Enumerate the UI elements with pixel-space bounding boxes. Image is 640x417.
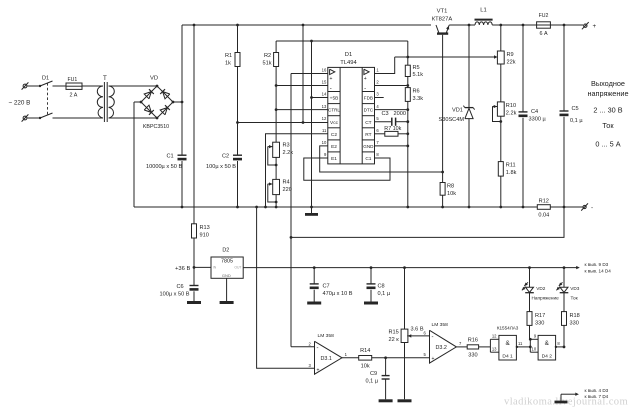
pin number 6 (D3.2) [423, 330, 426, 335]
svg-text:+: + [364, 76, 367, 82]
label 0...5A [595, 140, 620, 149]
label 3.6V [411, 327, 424, 333]
node R15 tap [403, 266, 406, 269]
pin number 8 [557, 341, 560, 346]
label VD3 [570, 286, 580, 291]
label C3 value [394, 111, 406, 117]
wire FU2 to + terminal [550, 24, 583, 27]
label R15 [389, 330, 399, 336]
label & (D4.2) [545, 340, 550, 347]
wire input top to switch [27, 85, 40, 87]
svg-text:12: 12 [492, 334, 497, 339]
svg-text:0.04: 0.04 [538, 213, 549, 219]
switch D1 link (dashed) [47, 83, 49, 115]
wire voltage feedback [291, 207, 564, 237]
label D1 (switch) [42, 76, 49, 82]
wire R10 to R11 [500, 116, 502, 161]
wire rail to R9 [500, 25, 502, 51]
label R18 [570, 313, 580, 319]
wire pin5 CT to C3 [375, 121, 392, 123]
fuse FU1 [66, 83, 82, 89]
svg-text:IN: IN [213, 266, 217, 270]
label C6 value [160, 292, 190, 298]
node R1 rail tap [236, 24, 239, 27]
transformer T primary winding [97, 86, 103, 118]
wire rail to VD2 [529, 268, 531, 288]
svg-text:100µ x 50 В: 100µ x 50 В [206, 164, 236, 170]
svg-text:R18: R18 [570, 313, 580, 319]
pin number 5 (D3.2) [423, 352, 426, 357]
diode bridge VD bottom-left [144, 105, 154, 115]
wire rail to VD3 [563, 268, 565, 288]
label D3.2 - [432, 335, 434, 341]
wire pin15 to divider [276, 85, 328, 87]
svg-text:к выв. 7 D4: к выв. 7 D4 [585, 394, 609, 399]
pin number 14 [322, 92, 327, 97]
resistor R17 [527, 312, 532, 326]
svg-text:2.2k: 2.2k [506, 111, 517, 117]
label k9D3 [585, 262, 609, 267]
wire R5 to R6 [406, 77, 409, 88]
svg-text:к выв. 9 D3: к выв. 9 D3 [585, 262, 609, 267]
wire R8 to ground bus [441, 195, 444, 208]
svg-text:910: 910 [200, 233, 209, 239]
label C9 [370, 371, 377, 377]
wire pin2 to R5/R6 node [375, 85, 408, 87]
node Vcc rail tap [302, 24, 305, 27]
resistor R6 [405, 88, 410, 102]
label D2 [222, 248, 229, 254]
potentiometer R3 [273, 142, 280, 157]
label + [593, 23, 597, 30]
label R16 [468, 337, 478, 343]
wire +36V to regulator [194, 266, 211, 268]
label FU1 [68, 77, 78, 83]
wire gate input split [489, 339, 491, 352]
potentiometer R15 [401, 329, 408, 342]
label 6 A [539, 31, 547, 37]
wire pin11 C2 drop [264, 134, 328, 209]
wire R18 to D4.2 out [563, 325, 565, 347]
label D1 (IC) [345, 52, 352, 58]
svg-text:FDB: FDB [364, 96, 373, 101]
switch D1 pole top [39, 81, 53, 87]
wire current sense to D3.1 + [255, 206, 314, 369]
label R14 [360, 348, 370, 354]
node VD1 rail tap [468, 24, 471, 27]
label 2 A [70, 93, 78, 99]
svg-text:10000µ x 50 В: 10000µ x 50 В [146, 164, 182, 170]
ground C9 [379, 399, 393, 402]
wire R4 to ground bus [275, 195, 278, 209]
svg-text:Vcc: Vcc [330, 120, 339, 126]
node VD3 rail tap [563, 266, 566, 269]
svg-text:-: - [364, 86, 366, 92]
svg-text:E2: E2 [331, 144, 337, 150]
svg-text:D1: D1 [345, 52, 352, 58]
label R17 [535, 313, 545, 319]
diode bridge VD top-right [160, 89, 170, 99]
label k14D4 [585, 268, 612, 273]
wire VD3 to R18 [563, 293, 565, 312]
svg-text:CTRL: CTRL [328, 108, 340, 113]
svg-text:6 А: 6 А [539, 31, 547, 37]
wire D4.1 out [516, 346, 532, 349]
label D3.1 - [317, 345, 319, 351]
wire top bus left corner down (raw + rail) [181, 25, 183, 155]
svg-text:10k: 10k [361, 364, 370, 370]
svg-text:2 ... 30 В: 2 ... 30 В [593, 105, 622, 114]
node input terminal bottom (~220V line) [22, 114, 29, 121]
label VD [150, 76, 158, 82]
label R4 value [283, 187, 292, 193]
label R3 [283, 143, 290, 149]
wire ground bus [134, 206, 537, 208]
pin number 10 [532, 347, 537, 352]
wire fuse to transformer primary [82, 85, 103, 87]
wire D3.2 out to R16 [456, 346, 467, 348]
svg-text:R15: R15 [389, 330, 399, 336]
wire R9 to R10 [500, 64, 502, 102]
wire emitter node down to VD1 [468, 25, 470, 108]
wire gate D4.2 input 9 [530, 338, 538, 340]
label left comparator - [330, 86, 332, 92]
svg-text:10: 10 [532, 347, 537, 352]
wire rail to R15 [404, 268, 406, 330]
transistor VT1 collector [436, 25, 439, 33]
label R10 value [506, 111, 517, 117]
svg-text:16: 16 [322, 68, 327, 73]
label R5 [413, 65, 420, 71]
pin label GND (right column) [363, 144, 374, 149]
capacitor C2 [233, 155, 242, 160]
svg-text:330: 330 [468, 353, 477, 359]
svg-text:13: 13 [492, 347, 497, 352]
node bridge AC top junction [156, 85, 159, 88]
svg-text:R11: R11 [506, 163, 516, 169]
label R1 value [225, 61, 231, 67]
svg-text:13: 13 [322, 104, 327, 109]
wire R2 top stub [275, 41, 277, 53]
label D3.1 + [317, 367, 320, 373]
wiper R3 arrow [268, 145, 273, 148]
svg-text:2.2k: 2.2k [283, 150, 294, 156]
svg-text:10: 10 [322, 140, 327, 145]
wire pin13 CTRL to divider [276, 109, 328, 111]
svg-text:3.3k: 3.3k [413, 96, 424, 102]
label VT1 [437, 9, 448, 15]
svg-text:GND: GND [363, 144, 374, 149]
fuse FU2 [537, 22, 551, 28]
label k4D3 [585, 388, 609, 393]
pin number 7 (D3.2) [459, 341, 462, 346]
wire R14 to D3.2 + [372, 356, 430, 359]
wire pin6 RT to R7 [375, 133, 385, 135]
resistor R1 [235, 53, 240, 67]
pin number 13 [492, 347, 497, 352]
pin label E1 (left column) [331, 156, 337, 162]
pin label +5В (left column) [330, 96, 339, 102]
svg-text:C5: C5 [572, 106, 579, 112]
transformer T core [104, 82, 107, 122]
pin label DTC (right column) [364, 108, 374, 113]
voltage regulator D2 7805 body [211, 257, 243, 278]
op-amp U1 TL494 body (D1) [328, 67, 375, 163]
diode bridge VD bottom-right [160, 105, 170, 115]
svg-text:-: - [317, 345, 319, 351]
svg-text:C2: C2 [222, 153, 229, 159]
resistor R7 [385, 131, 398, 136]
label R8 value [447, 191, 456, 197]
label C5 [572, 106, 579, 112]
pin number 6 [376, 128, 379, 133]
wire L1 to FU2 [492, 24, 536, 26]
label R2 value [263, 61, 272, 67]
svg-text:FU1: FU1 [68, 77, 78, 83]
label Ток (output) [602, 121, 614, 130]
svg-text:220: 220 [283, 187, 292, 193]
svg-text:R13: R13 [200, 225, 210, 231]
potentiometer R4 [273, 179, 280, 194]
pin label RT (right column) [365, 132, 371, 138]
switch D1 pole bottom [39, 113, 53, 119]
pin number 1 [376, 68, 379, 73]
resistor R11 [498, 162, 503, 177]
pin number 10 [322, 140, 327, 145]
svg-text:+: + [593, 23, 597, 30]
svg-text:0,1 µ: 0,1 µ [570, 118, 583, 124]
label left comparator + [330, 76, 333, 82]
wire ref line y41 [276, 41, 408, 57]
svg-text:DTC: DTC [364, 108, 374, 113]
node R13 rail tap [193, 24, 196, 27]
svg-text:2 A: 2 A [70, 93, 78, 99]
label T [103, 75, 107, 82]
pin number 5 [376, 116, 379, 121]
svg-text:КТ827А: КТ827А [432, 17, 453, 23]
wire C9 gnd stem [385, 379, 387, 399]
label R13 value [200, 233, 209, 239]
wire pin14 drop ground stem [311, 207, 313, 213]
wire 7805 gnd stem [226, 278, 228, 301]
label Ток [571, 296, 579, 301]
wire R7 to drop [398, 133, 408, 135]
wire gnd ref stem [560, 394, 562, 400]
svg-text:C1: C1 [365, 156, 371, 162]
svg-text:7805: 7805 [221, 258, 233, 264]
svg-text:S30SC4M: S30SC4M [439, 117, 465, 123]
capacitor C1 [178, 155, 187, 160]
label & (D4.1) [505, 340, 510, 347]
label R12 value [538, 213, 549, 219]
wire VD1 to ground bus [468, 119, 471, 209]
label TL494 [340, 60, 357, 66]
pin label C1 (right column) [365, 156, 371, 162]
potentiometer R9 [497, 51, 504, 64]
label C2 value [206, 164, 236, 170]
wire rail to C7 [313, 268, 315, 284]
wire rail to C8 [370, 268, 372, 284]
node output terminal - [581, 203, 588, 210]
pin label IN (7805) [213, 266, 217, 270]
wire bridge minus to left [134, 101, 142, 104]
svg-text:D4 2: D4 2 [542, 354, 553, 360]
pin number 8 [376, 152, 379, 157]
svg-text:C6: C6 [177, 284, 184, 290]
wire +36V drop to R13 [193, 25, 195, 224]
svg-text:14: 14 [322, 92, 327, 97]
svg-text:22k: 22k [507, 60, 516, 66]
label 2...30V [593, 105, 622, 114]
label C7 value [323, 291, 353, 297]
wire R11 to ground bus [499, 176, 502, 208]
label R2 [264, 53, 271, 59]
node output terminal + [582, 22, 589, 29]
ground R15 [398, 399, 412, 402]
svg-text:C8: C8 [378, 284, 385, 290]
pin number 9 [324, 152, 327, 157]
svg-text:-: - [432, 335, 434, 341]
pin number 4 [376, 104, 379, 109]
wire D3.1 out to R14 [342, 357, 359, 359]
wire VD2 to R17 [529, 293, 531, 312]
svg-text:C7: C7 [323, 284, 330, 290]
svg-text:Напряжение: Напряжение [532, 296, 560, 301]
svg-text:2000: 2000 [394, 111, 406, 117]
capacitor C8 [367, 284, 376, 289]
wire bridge minus down to ground bus [133, 102, 135, 207]
svg-text:R14: R14 [360, 348, 370, 354]
svg-text:11: 11 [518, 341, 523, 346]
svg-text:Ток: Ток [571, 296, 579, 301]
label D3.1 [321, 356, 332, 362]
svg-text:5.1k: 5.1k [413, 72, 424, 78]
resistor R16 [467, 345, 478, 349]
wire pin4 DTC [375, 109, 408, 111]
pin label CTRL (left column) [328, 108, 340, 113]
pin number 15 [322, 80, 327, 85]
ground C6 [187, 301, 201, 304]
wire pin3 FDB stub [375, 97, 384, 99]
LED VD3 [556, 282, 568, 292]
node C8 tap [370, 266, 373, 269]
label R4 [283, 180, 290, 186]
node +36V junction [193, 266, 196, 269]
pin number 16 [322, 68, 327, 73]
svg-text:C2: C2 [331, 132, 337, 138]
wire bridge plus to C1 column [172, 101, 184, 104]
label - [591, 204, 593, 211]
wire sense to D3.1 - [291, 346, 315, 348]
wire R14 node to C9 [385, 358, 387, 376]
svg-text:-: - [591, 204, 593, 211]
potentiometer R10 [497, 102, 504, 116]
ground C8 [364, 302, 378, 305]
wire gate D4.1 input 13 [490, 351, 499, 353]
transformer T secondary winding [109, 86, 115, 118]
svg-text:D2: D2 [222, 248, 229, 254]
resistor R12 (shunt) [537, 205, 550, 210]
LED VD2 [522, 282, 534, 292]
resistor R2 [274, 53, 279, 67]
label FU2 [539, 13, 549, 19]
node input terminal top (~220V line) [22, 82, 29, 89]
svg-text:&: & [545, 340, 550, 347]
label KT827A [432, 17, 453, 23]
svg-text:C4: C4 [531, 109, 538, 115]
diode VD1 [463, 106, 474, 119]
wire secondary bottom to bridge [109, 117, 157, 119]
pin number 3 [376, 92, 379, 97]
svg-text:11: 11 [322, 128, 327, 133]
svg-text:C3: C3 [382, 111, 389, 117]
label C9 value [366, 379, 379, 385]
label R9 value [507, 60, 516, 66]
svg-text:Ток: Ток [602, 121, 614, 130]
wire R13 to +36V node [193, 238, 195, 286]
wire pin1 to voltage sense [375, 57, 395, 74]
label k7D4 [585, 394, 609, 399]
label KBPC3510 [143, 124, 169, 130]
label D3.2 [436, 345, 447, 351]
wire switch to fuse FU1 [53, 85, 67, 87]
pin label C2 (left column) [331, 132, 337, 138]
wire C5 to ground bus [563, 117, 566, 209]
svg-text:3.6 В: 3.6 В [411, 327, 424, 333]
label VD2 [536, 286, 546, 291]
svg-text:+36 В: +36 В [175, 266, 190, 272]
ground D3/D4 supply [555, 401, 568, 404]
svg-text:R4: R4 [283, 180, 290, 186]
pin number 3 (D3.1) [308, 363, 311, 368]
svg-text:CT: CT [365, 120, 371, 126]
label R16 value [468, 353, 477, 359]
svg-text:Выходное: Выходное [591, 79, 625, 88]
label R8 [447, 184, 454, 190]
svg-text:R5: R5 [413, 65, 420, 71]
svg-text:R9: R9 [507, 52, 514, 58]
wiper R15 arrow [408, 334, 412, 337]
svg-text:R6: R6 [413, 89, 420, 95]
gate D4.1 body [499, 335, 517, 360]
svg-text:D4 1: D4 1 [502, 354, 513, 360]
svg-text:LM 358: LM 358 [432, 322, 449, 328]
label R17 value [535, 321, 544, 327]
svg-text:R8: R8 [447, 184, 454, 190]
svg-text:К1554ЛА3: К1554ЛА3 [497, 326, 519, 331]
wire pin7 GND [375, 145, 408, 147]
wiper R10 arrow [492, 105, 497, 108]
svg-text:+: + [317, 367, 320, 373]
pin number 13 [322, 104, 327, 109]
svg-text:L1: L1 [480, 8, 486, 14]
wire pin10 E2 to driver [320, 146, 444, 174]
pin label FDB (right column) [364, 96, 373, 101]
pin number 12 [492, 334, 497, 339]
svg-text:D3.2: D3.2 [436, 345, 447, 351]
wire gate D4.1 input 12 [490, 338, 499, 340]
svg-text:+5В: +5В [330, 96, 339, 102]
label L1 [480, 8, 486, 14]
pin number 2 (D3.1) [308, 341, 311, 346]
capacitor C7 [310, 284, 319, 289]
wire Vcc drop from raw rail [302, 25, 305, 124]
label R6 value [413, 96, 424, 102]
wire C7 gnd stem [313, 290, 315, 302]
label C4 value [529, 117, 547, 123]
svg-text:напряжение: напряжение [587, 89, 628, 98]
label C4 [531, 109, 538, 115]
